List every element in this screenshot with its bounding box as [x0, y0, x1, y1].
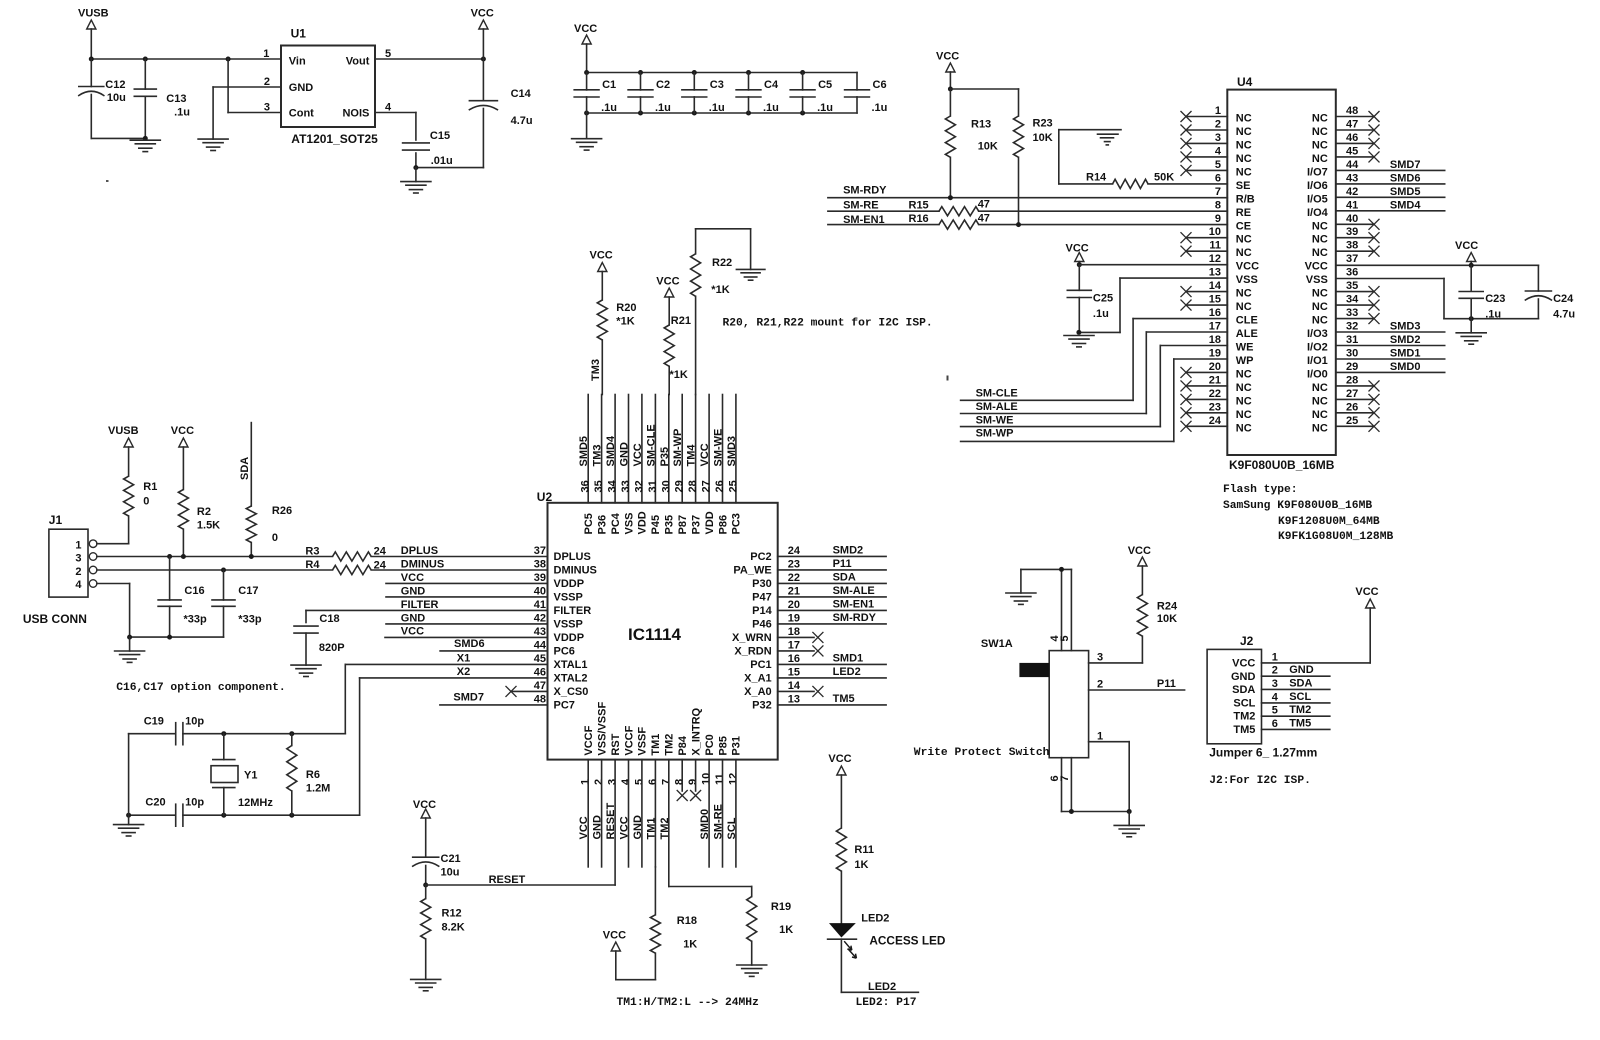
wire J1 pin4 to ground — [97, 584, 130, 638]
U2 pin8 no-connect — [677, 760, 688, 801]
wire U4 pin13 VSS down to C25 gnd — [1076, 278, 1227, 335]
svg-text:SMD6: SMD6 — [1390, 172, 1421, 184]
svg-text:GND: GND — [1231, 671, 1256, 683]
net SDA (vertical) — [239, 423, 251, 506]
U2 pin 11 net SM-RE — [713, 760, 725, 867]
svg-text:DMINUS: DMINUS — [401, 559, 444, 571]
svg-text:1K: 1K — [779, 924, 793, 936]
svg-text:DPLUS: DPLUS — [401, 545, 438, 557]
wire U1 pin2 GND — [213, 87, 281, 139]
svg-text:30: 30 — [660, 480, 672, 492]
U2 pin 44 PC6 — [534, 639, 575, 657]
U2 pin 48 PC7 — [534, 693, 575, 711]
wire net RESET — [423, 874, 615, 888]
svg-text:C21: C21 — [441, 853, 461, 865]
wire U2 pin7 TM2 to R19 — [669, 887, 752, 897]
svg-text:43: 43 — [1346, 172, 1358, 184]
U2 pin 14 X_A0 — [744, 680, 801, 698]
U4 pin 41 I/O4 — [1307, 199, 1358, 219]
svg-text:P14: P14 — [752, 605, 772, 617]
U4 pin 11 NC — [1181, 240, 1252, 260]
svg-text:12: 12 — [727, 773, 739, 785]
U2 pin 4 bottom stub — [619, 760, 631, 867]
SW1A pin3 to R24 — [1089, 652, 1143, 664]
net SMD1 (U4 pin 30) — [1336, 348, 1445, 360]
U2 pin 18 no-connect — [778, 632, 824, 643]
svg-text:28: 28 — [687, 480, 699, 492]
svg-text:20: 20 — [1209, 361, 1221, 373]
U2 pin 39 VDDP — [534, 572, 584, 590]
svg-text:P32: P32 — [752, 700, 772, 712]
U4 pin 7 R/B — [1215, 186, 1255, 206]
svg-text:SE: SE — [1236, 180, 1251, 192]
svg-text:NC: NC — [1312, 409, 1328, 421]
svg-text:TM2: TM2 — [1233, 711, 1255, 723]
capacitor C20 — [145, 797, 204, 827]
wire VCC to U4 pin12 — [1077, 262, 1228, 267]
ground below R12 — [411, 979, 441, 990]
ground (R22) — [736, 269, 765, 280]
svg-text:9: 9 — [1215, 213, 1221, 225]
U4 pin 14 NC — [1181, 280, 1252, 300]
U2 pin 10 PC0 (bottom) — [701, 734, 716, 785]
svg-text:C16: C16 — [184, 585, 204, 597]
svg-text:P86: P86 — [717, 515, 729, 535]
svg-text:PC5: PC5 — [583, 513, 595, 534]
U2 pin 34 PC4 (top) — [605, 395, 622, 535]
svg-text:23: 23 — [1209, 401, 1221, 413]
U2 pin3 RESET wire — [605, 760, 617, 885]
U2 pin42 GND stub — [386, 612, 548, 624]
wire R22 top to ground — [696, 229, 751, 270]
svg-text:SMD4: SMD4 — [605, 435, 617, 466]
net SMD1 (U2 pin 16) — [778, 652, 886, 664]
net SM-EN1 (U2 pin 20) — [778, 598, 886, 610]
svg-text:10K: 10K — [978, 141, 998, 153]
svg-text:NC: NC — [1236, 234, 1252, 246]
U2 pin 25 PC3 (top) — [726, 395, 743, 535]
svg-text:41: 41 — [1346, 199, 1358, 211]
svg-text:4.7u: 4.7u — [1553, 308, 1575, 320]
svg-text:11: 11 — [1209, 240, 1221, 252]
svg-text:1: 1 — [1215, 105, 1221, 117]
svg-text:1K: 1K — [854, 859, 868, 871]
ground below J1 pin4 — [115, 637, 145, 662]
svg-text:.1u: .1u — [601, 102, 617, 114]
svg-text:PC3: PC3 — [731, 513, 743, 534]
svg-text:NC: NC — [1312, 139, 1328, 151]
svg-text:1K: 1K — [683, 939, 697, 951]
svg-text:GND: GND — [592, 815, 604, 840]
svg-text:P85: P85 — [717, 736, 729, 756]
ground below C1 — [572, 113, 602, 150]
LED LED2 ACCESS LED — [828, 913, 946, 959]
U4 pin 3 NC — [1181, 132, 1252, 152]
svg-text:P30: P30 — [752, 578, 772, 590]
svg-text:VSS: VSS — [623, 512, 635, 534]
svg-text:VCC: VCC — [699, 443, 711, 466]
U4 pin 24 NC — [1181, 415, 1252, 435]
svg-text:R11: R11 — [854, 844, 874, 856]
wire SW1A bottom to ground — [1062, 809, 1132, 814]
svg-text:ACCESS LED: ACCESS LED — [869, 934, 946, 948]
crystal Y1 12MHz — [211, 734, 273, 816]
svg-text:SM-ALE: SM-ALE — [833, 585, 875, 597]
U2 pin 42 VSSP — [534, 612, 583, 630]
svg-text:NC: NC — [1236, 422, 1252, 434]
svg-text:C2: C2 — [656, 79, 670, 91]
svg-text:R14: R14 — [1086, 172, 1107, 184]
svg-text:I/O4: I/O4 — [1307, 207, 1329, 219]
svg-text:VSS: VSS — [1306, 274, 1328, 286]
U4 pin 48 NC — [1312, 105, 1380, 125]
svg-text:NC: NC — [1312, 382, 1328, 394]
svg-text:VCCF: VCCF — [583, 725, 595, 755]
svg-text:C1: C1 — [602, 79, 616, 91]
U4 pin 31 I/O2 — [1307, 334, 1358, 354]
U4 pin 34 NC — [1312, 294, 1380, 314]
svg-text:20: 20 — [788, 599, 800, 611]
U4 pin 32 I/O3 — [1307, 321, 1358, 341]
U4 pin 4 NC — [1181, 145, 1252, 165]
svg-text:25: 25 — [727, 480, 739, 492]
resistor R2 — [178, 490, 220, 557]
svg-text:VCC: VCC — [578, 816, 590, 839]
power flag VCC (C23/C24) — [1455, 240, 1478, 265]
svg-text:16: 16 — [788, 653, 800, 665]
svg-text:PC1: PC1 — [750, 659, 771, 671]
svg-text:C14: C14 — [511, 88, 532, 100]
svg-text:4.7u: 4.7u — [511, 115, 533, 127]
svg-text:1: 1 — [263, 48, 269, 60]
svg-text:P46: P46 — [752, 619, 772, 631]
U4 pin 45 NC — [1312, 145, 1380, 165]
svg-text:PA_WE: PA_WE — [733, 565, 771, 577]
svg-text:RESET: RESET — [489, 874, 526, 886]
svg-text:VCC: VCC — [574, 23, 597, 35]
svg-text:Write Protect Switch: Write Protect Switch — [914, 747, 1050, 759]
wire C16/C17 ground bus — [127, 635, 223, 640]
svg-text:29: 29 — [674, 480, 686, 492]
svg-text:10p: 10p — [185, 797, 204, 809]
U2 pin 5 VSSF (bottom) — [633, 727, 648, 785]
U4 pin 42 I/O5 — [1307, 186, 1358, 206]
svg-text:VCC: VCC — [1355, 586, 1378, 598]
power flag VCC (decoupling bank) — [574, 23, 597, 73]
capacitor C16 — [158, 557, 207, 638]
svg-text:VCC: VCC — [1128, 545, 1151, 557]
svg-text:3: 3 — [607, 779, 619, 785]
svg-text:5: 5 — [1215, 159, 1221, 171]
U2 pin 35 P36 (top) — [592, 395, 609, 535]
svg-text:12MHz: 12MHz — [238, 797, 273, 809]
svg-text:VCC: VCC — [590, 250, 613, 262]
svg-text:VCC: VCC — [603, 930, 626, 942]
svg-text:47: 47 — [1346, 119, 1358, 131]
svg-text:RESET: RESET — [605, 803, 617, 840]
svg-text:43: 43 — [534, 626, 546, 638]
svg-text:3: 3 — [264, 102, 270, 114]
U2 pin 12 net SCL — [726, 760, 738, 867]
resistor R12 — [421, 885, 465, 979]
svg-text:VCC: VCC — [828, 753, 851, 765]
svg-text:NC: NC — [1312, 220, 1328, 232]
net SMD3 (U4 pin 32) — [1336, 321, 1445, 333]
svg-text:LED2: P17: LED2: P17 — [856, 997, 917, 1009]
wire crystal bottom (X2 node) — [126, 813, 360, 818]
svg-text:1: 1 — [1272, 651, 1278, 663]
net P11 (U2 pin 23) — [778, 558, 886, 570]
power flag VUSB (top left) — [78, 8, 109, 60]
wire net DMINUS (J1 pin2 to R4) — [97, 568, 333, 573]
capacitor C17 — [212, 570, 262, 637]
svg-text:SM-CLE: SM-CLE — [645, 424, 657, 466]
svg-text:USB CONN: USB CONN — [23, 612, 87, 626]
svg-text:I/O5: I/O5 — [1307, 193, 1328, 205]
svg-text:K9F080U0B_16MB: K9F080U0B_16MB — [1229, 458, 1335, 472]
capacitor C15 — [403, 130, 453, 168]
svg-text:TM1: TM1 — [650, 734, 662, 756]
svg-text:8.2K: 8.2K — [442, 922, 465, 934]
svg-text:SMD0: SMD0 — [699, 809, 711, 840]
J2 pin3 net SDA — [1262, 677, 1330, 690]
svg-text:18: 18 — [788, 626, 800, 638]
net SM-EN1 label — [843, 214, 885, 226]
ground below C15 — [401, 168, 431, 193]
wire SW1A pin1 — [1089, 731, 1130, 812]
svg-text:SM-CLE: SM-CLE — [976, 388, 1018, 400]
svg-text:AT1201_SOT25: AT1201_SOT25 — [291, 132, 378, 146]
U2 pin 17 X_RDN — [734, 639, 800, 657]
svg-text:R6: R6 — [306, 769, 320, 781]
svg-text:GND: GND — [1289, 664, 1314, 676]
U4 pin 47 NC — [1312, 119, 1380, 139]
svg-text:SCL: SCL — [726, 817, 738, 839]
wire C12/C13 bottom — [91, 136, 148, 141]
svg-text:C12: C12 — [105, 79, 125, 91]
U2 pin 20 P14 — [752, 599, 800, 617]
U2 pin 4 VCCF (bottom) — [620, 725, 635, 785]
capacitor C18 — [294, 613, 345, 665]
U2 pin 14 no-connect — [778, 686, 824, 697]
net SM-WP — [961, 428, 1174, 442]
svg-text:50K: 50K — [1154, 172, 1174, 184]
svg-text:VSSF: VSSF — [637, 727, 649, 756]
svg-text:R/B: R/B — [1236, 193, 1255, 205]
U1 pin number 5 — [385, 48, 391, 60]
U4 pin 19 WP — [1209, 348, 1254, 368]
svg-text:VCC: VCC — [1305, 261, 1328, 273]
svg-text:VUSB: VUSB — [78, 8, 109, 20]
svg-text:27: 27 — [701, 480, 713, 492]
resistor R20 — [597, 300, 636, 395]
svg-text:1: 1 — [580, 779, 592, 785]
U4 pin 38 NC — [1312, 240, 1380, 260]
svg-text:3: 3 — [1097, 652, 1103, 664]
svg-text:X1: X1 — [457, 653, 470, 665]
stray dot — [106, 180, 109, 182]
SW1A pins 4/5 to ground — [1021, 567, 1072, 651]
svg-text:4: 4 — [75, 579, 82, 591]
svg-text:R4: R4 — [305, 559, 320, 571]
svg-text:C5: C5 — [818, 79, 832, 91]
svg-text:SM-RE: SM-RE — [713, 804, 725, 839]
svg-text:C6: C6 — [873, 79, 887, 91]
U4 pin 40 NC — [1312, 213, 1380, 233]
J2 pin1 wire — [1262, 651, 1371, 663]
wire DMINUS to U2 pin38 — [371, 559, 547, 571]
svg-text:21: 21 — [1209, 374, 1221, 386]
net SM-WE — [961, 414, 1161, 426]
J2 pin4 net SCL — [1262, 691, 1330, 704]
svg-text:2: 2 — [264, 76, 270, 88]
wire LED2 cathode to net LED2 — [841, 939, 918, 993]
svg-text:1.2M: 1.2M — [306, 783, 330, 795]
svg-text:SM-RDY: SM-RDY — [843, 185, 887, 197]
svg-text:40: 40 — [534, 585, 546, 597]
capacitor C13 — [134, 59, 190, 138]
U4 pin 18 WE — [1209, 334, 1254, 354]
U2 pin 27 VDD (top) — [699, 395, 716, 535]
U2 pin6 TM1 wire — [645, 760, 657, 867]
U1 pin number 3 — [264, 102, 270, 114]
svg-text:5: 5 — [633, 779, 645, 785]
ground below R19 — [737, 965, 767, 976]
capacitor C21 — [413, 853, 461, 885]
svg-text:VCC: VCC — [171, 425, 194, 437]
svg-text:SMD0: SMD0 — [1390, 361, 1421, 373]
svg-text:11: 11 — [714, 773, 726, 785]
U2 pin 12 P31 (bottom) — [727, 736, 742, 785]
svg-text:34: 34 — [1346, 294, 1359, 306]
svg-text:1: 1 — [75, 540, 81, 552]
net SM-CLE — [961, 388, 1134, 401]
svg-text:31: 31 — [1346, 334, 1358, 346]
resistor R23 — [1014, 89, 1053, 225]
svg-text:SCL: SCL — [1289, 691, 1311, 703]
svg-text:TM2: TM2 — [659, 818, 671, 840]
U2 pin41 FILTER wire — [306, 599, 548, 623]
svg-text:NC: NC — [1236, 368, 1252, 380]
svg-text:SM-RDY: SM-RDY — [833, 612, 877, 624]
svg-text:*33p: *33p — [184, 614, 208, 626]
svg-text:0: 0 — [272, 532, 278, 544]
wire U1 NOIS to C15 — [375, 113, 416, 141]
svg-text:C17: C17 — [238, 585, 258, 597]
svg-text:3: 3 — [75, 553, 81, 565]
resistor R16 — [828, 213, 1227, 230]
svg-text:10p: 10p — [185, 716, 204, 728]
resistor R11 — [836, 828, 874, 923]
svg-text:X_WRN: X_WRN — [732, 632, 772, 644]
svg-text:22: 22 — [1209, 388, 1221, 400]
svg-text:NC: NC — [1236, 126, 1252, 138]
svg-text:6: 6 — [647, 779, 659, 785]
svg-text:GND: GND — [632, 815, 644, 840]
resistor R4 — [305, 559, 386, 575]
svg-text:2: 2 — [593, 779, 605, 785]
svg-text:P11: P11 — [1157, 678, 1176, 690]
svg-text:DPLUS: DPLUS — [554, 551, 591, 563]
U2 pin 33 VSS (top) — [619, 395, 636, 535]
U2 pin 26 P86 (top) — [713, 395, 730, 535]
svg-text:3: 3 — [1215, 132, 1221, 144]
ground below C23 — [1456, 319, 1486, 345]
power flag VCC (R18 pullup) — [603, 930, 656, 980]
svg-text:P37: P37 — [690, 515, 702, 535]
svg-text:33: 33 — [1346, 307, 1358, 319]
svg-text:29: 29 — [1346, 361, 1358, 373]
svg-text:LED2: LED2 — [868, 981, 896, 993]
U2 pin 29 P87 (top) — [672, 395, 689, 535]
svg-text:36: 36 — [1346, 267, 1358, 279]
svg-text:C16,C17 option component.: C16,C17 option component. — [116, 682, 285, 694]
svg-text:SDA: SDA — [833, 571, 856, 583]
svg-text:17: 17 — [1209, 321, 1221, 333]
svg-text:Flash type:: Flash type: — [1223, 484, 1298, 496]
svg-text:C24: C24 — [1553, 293, 1574, 305]
svg-text:26: 26 — [714, 480, 726, 492]
svg-text:SMD5: SMD5 — [1390, 186, 1421, 198]
svg-text:SMD3: SMD3 — [726, 436, 738, 467]
wire U4 pin17 ALE — [1146, 332, 1227, 414]
svg-text:GND: GND — [619, 442, 631, 467]
svg-text:LED2: LED2 — [861, 913, 889, 925]
svg-text:27: 27 — [1346, 388, 1358, 400]
U4 pin 39 NC — [1312, 226, 1380, 246]
svg-text:XTAL2: XTAL2 — [554, 673, 588, 685]
J2 pin2 net GND — [1262, 664, 1330, 677]
U2 pin 11 P85 (bottom) — [714, 736, 729, 785]
svg-text:C23: C23 — [1485, 293, 1505, 305]
svg-text:31: 31 — [647, 480, 659, 492]
svg-text:NC: NC — [1312, 153, 1328, 165]
svg-text:3: 3 — [1272, 678, 1278, 690]
svg-text:7: 7 — [660, 779, 672, 785]
svg-text:TM3: TM3 — [592, 445, 604, 467]
U2 pin 30 P35 (top) — [659, 395, 676, 535]
svg-text:C18: C18 — [319, 613, 339, 625]
svg-text:PC6: PC6 — [554, 646, 575, 658]
svg-text:NC: NC — [1312, 422, 1328, 434]
wire X1 (U2 pin45 to crystal) — [345, 653, 547, 734]
svg-text:R20, R21,R22 mount for I2C ISP: R20, R21,R22 mount for I2C ISP. — [723, 318, 933, 330]
U2 pin 1 bottom stub — [578, 760, 590, 867]
svg-text:38: 38 — [534, 558, 546, 570]
U2 pin 10 net SMD0 — [699, 760, 711, 867]
svg-text:R18: R18 — [677, 915, 697, 927]
U4 pin 1 NC — [1181, 105, 1252, 125]
svg-text:10: 10 — [701, 773, 713, 785]
svg-text:37: 37 — [1346, 253, 1358, 265]
svg-text:32: 32 — [1346, 321, 1358, 333]
svg-text:46: 46 — [534, 666, 546, 678]
svg-text:NC: NC — [1236, 288, 1252, 300]
svg-text:1: 1 — [1097, 731, 1103, 743]
svg-text:PC7: PC7 — [554, 700, 575, 712]
svg-text:39: 39 — [1346, 226, 1358, 238]
ground below C13 — [130, 140, 160, 151]
U4 pin 16 CLE — [1209, 307, 1258, 327]
svg-text:25: 25 — [1346, 415, 1358, 427]
U2 pin 17 no-connect — [778, 645, 824, 656]
svg-text:C25: C25 — [1093, 293, 1113, 305]
svg-text:VCC: VCC — [413, 799, 436, 811]
U4 pin 43 I/O6 — [1307, 172, 1358, 192]
note J2 I2C — [1209, 775, 1311, 787]
wire crystal left leg — [128, 734, 130, 816]
svg-text:X_INTRQ: X_INTRQ — [690, 707, 702, 755]
